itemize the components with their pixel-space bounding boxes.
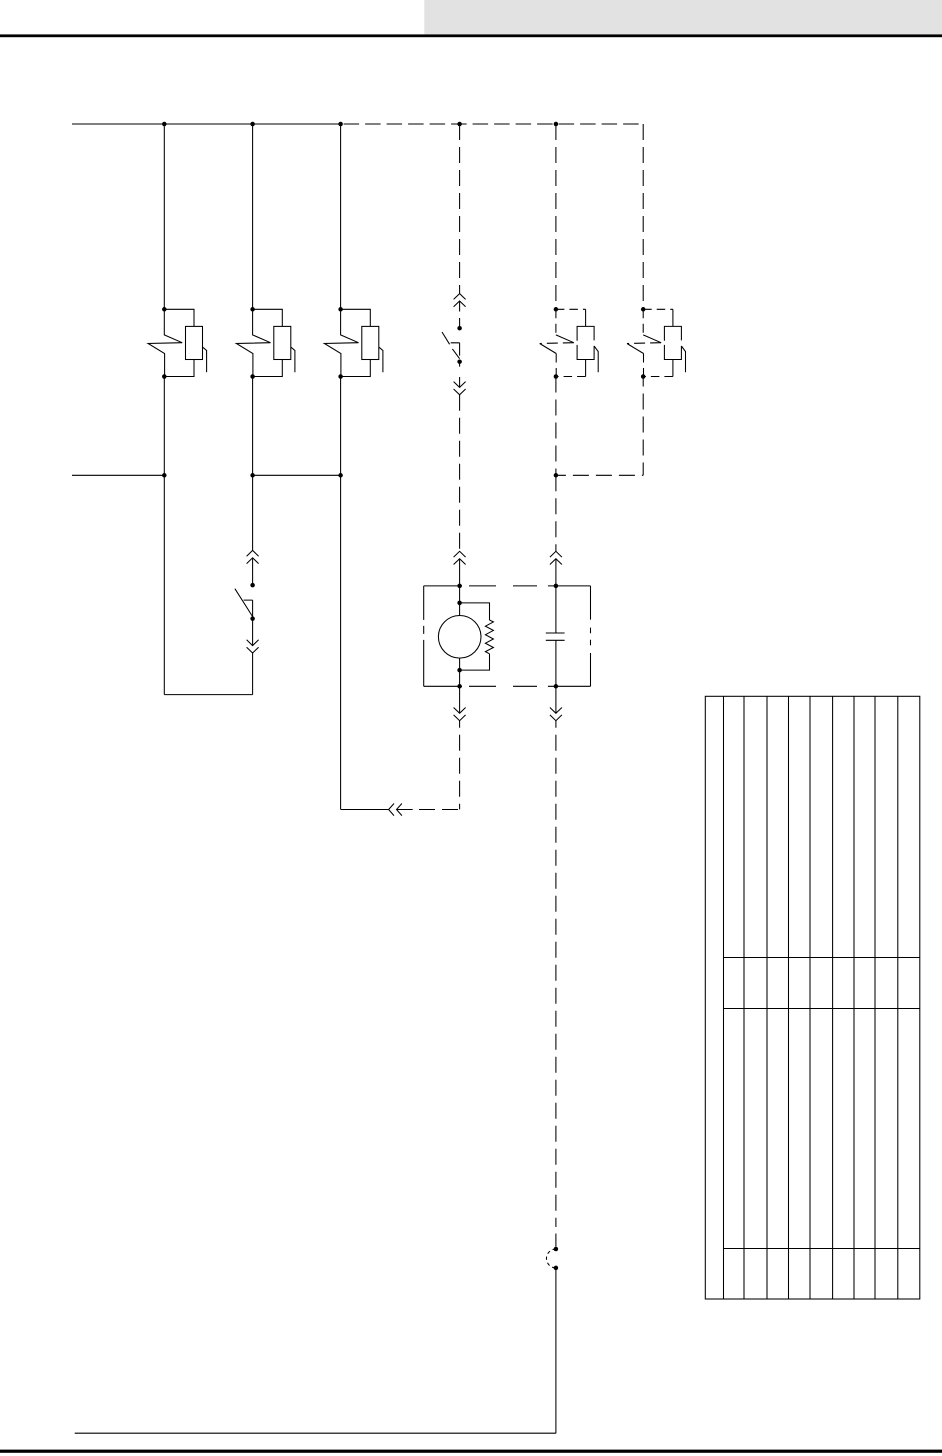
wire col3 drop	[340, 124, 342, 309]
node CB5 top	[554, 307, 559, 312]
wire bottom loop col1 to col2	[164, 694, 252, 696]
wire col4 down dashed	[459, 721, 461, 810]
header gray bar	[424, 0, 942, 34]
circuit breaker CB3	[324, 309, 383, 376]
circuit breaker CB5 dashed	[540, 309, 599, 376]
node CB1 bottom	[162, 374, 167, 379]
node bus2 col5	[554, 473, 559, 478]
top rule	[0, 34, 942, 37]
wire resistor branch top	[460, 603, 490, 620]
node CB6 bottom	[641, 374, 646, 379]
switch S2 dashed blade	[442, 332, 460, 359]
wire P2 shaft	[252, 558, 254, 585]
node bus2 col1	[162, 473, 167, 478]
motor unit box right edge	[590, 586, 592, 686]
wire col2 drop	[252, 124, 254, 309]
node CB5 bottom	[554, 374, 559, 379]
node J1 bottom	[554, 1266, 559, 1271]
wire col5 drop dashed	[555, 124, 557, 309]
connector P2 upper above switch S1	[247, 550, 259, 563]
motor unit box bottom edge	[424, 685, 591, 687]
wire col4 drop dashed	[459, 124, 461, 294]
circuit breaker CB2	[236, 309, 294, 376]
bottom rule	[0, 1450, 942, 1453]
circuit breaker CB6 dashed	[627, 309, 686, 376]
node bus1 col3	[338, 122, 343, 127]
wire motor bottom	[459, 658, 461, 686]
node motor bottom	[457, 668, 462, 673]
connector P9 below box col5	[555, 686, 557, 713]
node box bottom col4	[457, 684, 462, 689]
wire col5 bottom solid	[555, 1268, 557, 1433]
connector P8 below box col4	[459, 686, 461, 713]
node bus1 col4	[457, 122, 462, 127]
wire capacitor bottom	[555, 640, 557, 686]
switch S1	[235, 589, 253, 619]
node bus2 col2	[250, 473, 255, 478]
connector J1 arc	[546, 1249, 555, 1268]
connector P7 into box col5	[550, 551, 562, 564]
wire col4 long dashed	[459, 395, 461, 552]
wire col2 bottom	[252, 653, 254, 695]
motor unit box top edge	[424, 585, 591, 587]
wire motor feed	[459, 586, 461, 616]
wire capacitor top	[555, 586, 557, 633]
table grid horizontal lines	[724, 958, 920, 1249]
node S1 top	[250, 583, 255, 588]
node CB3 top	[338, 307, 343, 312]
wire return horizontal dashed	[419, 809, 460, 811]
capacitor C1 plates	[546, 633, 565, 640]
node J1 top	[554, 1247, 559, 1252]
wire connector stub	[555, 1234, 557, 1247]
node S2 top	[457, 326, 462, 331]
node box top col4	[457, 584, 462, 589]
motor M1	[438, 616, 481, 659]
node CB3 bottom	[338, 374, 343, 379]
node box bottom col5	[554, 684, 559, 689]
node CB2 top	[250, 307, 255, 312]
wire L1 top bus solid	[72, 123, 341, 125]
connector P10 left chevrons	[389, 804, 413, 816]
connector P6 into box col4	[454, 551, 466, 564]
connector P2 lower below switch S1	[252, 619, 254, 646]
wire L2 bus right dashed	[556, 474, 643, 476]
switch S2 contact	[451, 343, 460, 356]
node CB6 top	[641, 307, 646, 312]
node bus1 col1	[162, 122, 167, 127]
motor unit box left edge	[423, 586, 425, 686]
wire col5 below breaker dashed	[555, 377, 557, 476]
wire P7 shaft	[555, 559, 557, 586]
wire col3 below breaker	[340, 377, 342, 810]
node CB2 bottom	[250, 374, 255, 379]
table grid outer frame	[705, 696, 920, 1299]
resistor R1 zigzag	[485, 620, 493, 654]
wire bottom return	[75, 1432, 556, 1434]
node motor top	[457, 601, 462, 606]
wire col1 drop	[163, 124, 165, 309]
wire col6 below breaker dashed	[642, 377, 644, 476]
node CB1 top	[162, 307, 167, 312]
node S1 bottom	[250, 616, 255, 621]
wire col2 below breaker	[252, 377, 254, 551]
node S2 bottom	[457, 359, 462, 364]
wire L2 bus mid segment	[253, 474, 341, 476]
wire L1 top bus dashed	[341, 123, 644, 125]
wire col5 dashed to box	[555, 475, 557, 551]
wire col1 below breaker	[163, 377, 165, 695]
wire resistor branch bottom	[460, 654, 490, 670]
table grid vertical lines	[724, 696, 898, 1299]
connector P5 below switch S2	[459, 362, 461, 388]
wire L2 bus left stub	[72, 474, 164, 476]
circuit breaker CB1	[148, 309, 207, 376]
node bus1 col5	[554, 122, 559, 127]
connector P4 upper chevrons	[454, 294, 466, 307]
wire col6 drop dashed	[642, 124, 644, 309]
node bus2 col3	[338, 473, 343, 478]
node bus1 col2	[250, 122, 255, 127]
wire P4 shaft dashed	[459, 301, 461, 328]
node box top col5	[554, 584, 559, 589]
wire return horizontal solid	[341, 809, 389, 811]
wire P6 shaft	[459, 559, 461, 586]
wire col5 long dashed down	[555, 721, 557, 1227]
